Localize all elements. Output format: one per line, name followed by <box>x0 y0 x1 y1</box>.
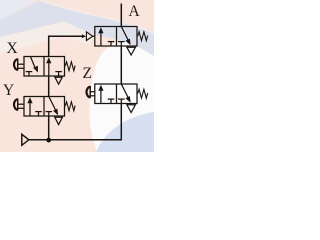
svg-text:A: A <box>129 3 141 20</box>
svg-text:X: X <box>7 40 18 57</box>
svg-text:Z: Z <box>83 65 92 82</box>
svg-text:Y: Y <box>3 82 14 99</box>
